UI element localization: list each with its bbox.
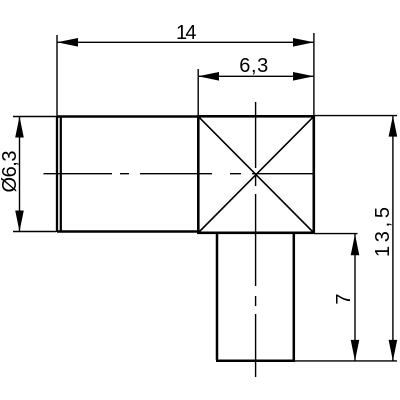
svg-text:7: 7 (333, 293, 355, 304)
svg-text:Ø6,3: Ø6,3 (0, 151, 21, 193)
svg-text:14: 14 (176, 22, 197, 44)
svg-text:13,5: 13,5 (372, 207, 394, 257)
svg-text:6,3: 6,3 (239, 55, 268, 77)
